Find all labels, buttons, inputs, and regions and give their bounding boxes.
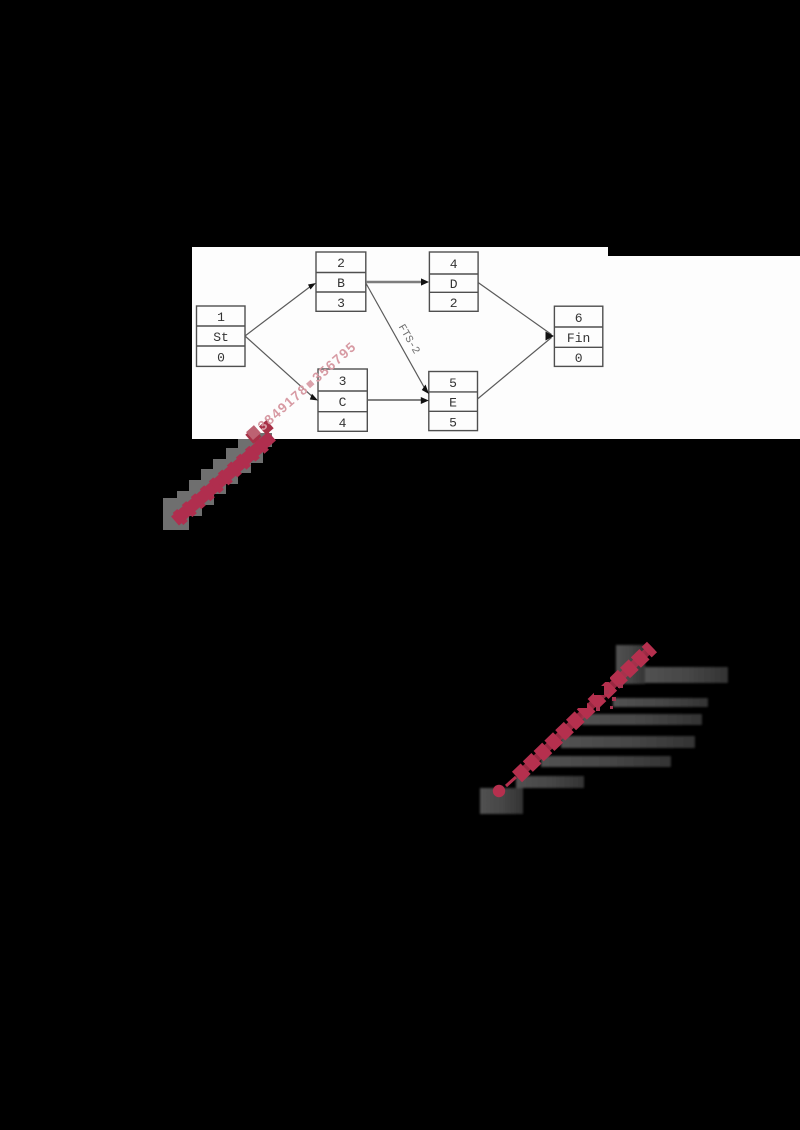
svg-text:St: St <box>213 330 229 345</box>
arrowhead at Fin <box>546 332 555 341</box>
node Fin (6/Fin/0) <box>554 306 602 366</box>
svg-text:B: B <box>337 276 345 291</box>
svg-text:2: 2 <box>450 296 458 311</box>
node C (3/C/4) <box>318 369 367 431</box>
svg-text:E: E <box>449 396 457 411</box>
watermark 2 red text band <box>493 647 652 797</box>
svg-text:0: 0 <box>575 351 583 366</box>
wire E to Fin <box>478 338 552 400</box>
svg-text:4: 4 <box>450 257 458 272</box>
svg-text:2: 2 <box>337 256 345 271</box>
svg-text:3: 3 <box>337 296 345 311</box>
watermark 2 broken glyph patches <box>578 676 610 708</box>
arrowhead at E lower <box>421 397 429 404</box>
node B (2/B/3) <box>316 252 366 311</box>
svg-text:0: 0 <box>217 351 225 366</box>
wire B to D <box>366 281 425 283</box>
watermark 1 crimson band <box>175 436 272 521</box>
watermark 1 dark glyphs at page edge <box>245 420 273 444</box>
white page area <box>192 247 800 439</box>
arrowhead at E upper <box>422 385 429 395</box>
svg-text:3: 3 <box>339 374 347 389</box>
wire St to C <box>245 336 315 399</box>
wire B to E (FTS lag) <box>366 283 427 392</box>
wire C to E <box>367 399 425 401</box>
svg-text:Fin: Fin <box>567 331 590 346</box>
svg-text:C: C <box>339 395 347 410</box>
node St (1/St/0) <box>197 306 246 366</box>
svg-text:1: 1 <box>217 310 225 325</box>
svg-text:5: 5 <box>449 376 457 391</box>
watermark 1 gray halo blocks <box>163 433 272 530</box>
svg-text:4: 4 <box>339 416 347 431</box>
watermark 2 red flecks <box>596 684 623 711</box>
arrowhead at C <box>310 394 318 401</box>
arrowhead at B <box>308 283 316 290</box>
arrowhead at D <box>421 278 429 285</box>
watermark 2 gray streaks <box>480 645 728 814</box>
svg-text:D: D <box>450 277 458 292</box>
wire St to B <box>245 285 313 337</box>
node E (5/E/5) <box>429 372 478 431</box>
wire D to Fin <box>478 283 551 335</box>
svg-text:5: 5 <box>449 416 457 431</box>
node D (4/D/2) <box>429 252 478 311</box>
svg-text:6: 6 <box>575 311 583 326</box>
watermark 1 pink number text on page <box>245 339 359 443</box>
